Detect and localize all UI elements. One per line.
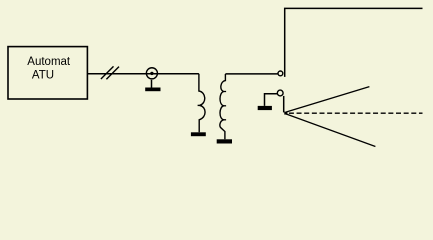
- wire J3 to ground: [265, 94, 278, 106]
- antenna wire upper: [286, 87, 369, 112]
- antenna wire lower: [286, 114, 375, 147]
- antenna wire middle (dashed): [289, 112, 423, 114]
- L2 loop crossover ticks: [223, 91, 226, 93]
- ATU box U1: [8, 47, 87, 99]
- feedline break slash 2: [106, 67, 119, 80]
- ground G4: [258, 106, 272, 110]
- transformer secondary L2: [220, 74, 226, 139]
- L1 loop crossover tick: [198, 104, 202, 106]
- ground G3: [217, 139, 232, 143]
- wire L2 to antenna jack J2: [225, 73, 277, 75]
- J1 stem to ground: [151, 80, 153, 88]
- ground G1: [145, 88, 160, 92]
- antenna lead-in wire (top): [285, 8, 423, 77]
- ground G2: [191, 132, 206, 136]
- feedline break slash 1: [101, 66, 114, 79]
- ground jack J3 (open circle): [277, 90, 283, 96]
- wire feedline from ATU to J1: [88, 73, 199, 75]
- feedthrough connector J1 (circle with center dot): [146, 68, 157, 79]
- antenna jack J2 (open circle): [278, 71, 283, 76]
- transformer primary L1: [199, 74, 205, 133]
- wire J3 down to antenna junction: [283, 96, 285, 113]
- svg-text:Automat: Automat: [27, 56, 71, 68]
- svg-text:ATU: ATU: [32, 70, 54, 82]
- junction node: [284, 112, 287, 115]
